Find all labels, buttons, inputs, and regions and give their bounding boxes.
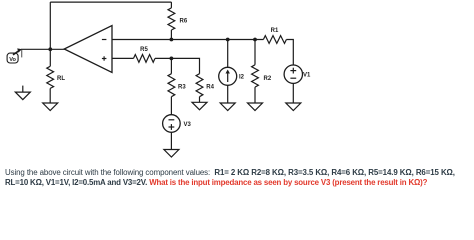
resistor R1 [263,28,286,43]
svg-text:R3: R3 [178,85,186,91]
node output junction [48,47,52,51]
ground R4 [192,102,207,110]
ground (probe reference) [15,86,30,100]
svg-text:V1: V1 [303,73,311,79]
svg-text:R5: R5 [140,47,148,53]
wire feedback top [50,1,171,3]
wire inverting input line [112,39,263,41]
ground V1 [286,103,301,111]
resistor R6 [168,2,188,39]
source V1 [284,65,311,83]
ground V3 [164,150,179,158]
resistor R5 [134,47,156,62]
svg-text:R4: R4 [206,85,214,91]
probe tip arrow [13,48,22,57]
wire node to I2 [227,40,229,68]
caption line 1 [5,168,455,177]
wire R1 to V1 [286,40,293,66]
wire node to R4 [171,58,199,73]
svg-text:R2: R2 [264,76,272,82]
caption line 2 [5,178,427,187]
wire V3 to ground [170,132,172,149]
node R2 [253,38,257,42]
wire V1 to ground [292,83,294,103]
svg-text:R6: R6 [180,19,188,25]
op-amp U1 [64,26,112,73]
resistor R2 [252,40,272,104]
probe Vo label box [7,53,18,63]
resistor R4 [196,74,215,103]
resistor RL [47,49,66,103]
ground RL [43,103,58,111]
svg-text:I2: I2 [239,75,245,81]
ground R2 [248,103,263,111]
svg-text:RL: RL [57,76,65,82]
node R6 to minus wire [170,38,174,42]
svg-text:V3: V3 [184,122,192,128]
wire I2 to ground [227,85,229,103]
wire output node to probe [21,48,65,50]
node R5/R3 junction [170,57,174,61]
source V3 [163,115,192,133]
wire noninverting stub [112,57,134,59]
svg-text:R1: R1 [271,28,279,34]
wire feedback vertical [49,2,51,49]
wire R5 to node [155,57,171,59]
svg-text:Vo: Vo [9,57,16,63]
resistor R3 [168,58,186,114]
current source I2 [219,67,245,85]
node I2 [226,38,230,42]
ground I2 [220,103,235,111]
